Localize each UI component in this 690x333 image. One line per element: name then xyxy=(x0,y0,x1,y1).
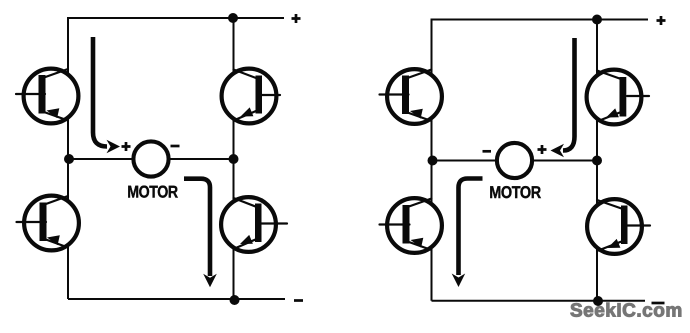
wire: right top rail xyxy=(432,19,649,21)
wire: right circuit left rail xyxy=(431,19,433,301)
current flow arrow into motor (right circuit) xyxy=(551,38,575,157)
node dot: left circuit mid-left junction xyxy=(64,154,74,164)
minus terminal label (left circuit supply) xyxy=(294,299,303,302)
node dot: right circuit top rail junction xyxy=(592,15,602,25)
motor M1 (left circuit) xyxy=(133,141,168,176)
transistor Q6 (top-right, right circuit) xyxy=(587,70,649,125)
motor M2 (right circuit) xyxy=(497,143,532,178)
wire: right bottom rail xyxy=(432,300,646,302)
node dot: right circuit bottom junction xyxy=(593,296,603,306)
node dot: right circuit mid-left junction xyxy=(428,156,438,166)
plus terminal label (left circuit supply) xyxy=(292,14,301,23)
transistor Q7 (bottom-left, right circuit) xyxy=(380,198,442,253)
transistor Q2 (top-right, left circuit) xyxy=(222,69,280,124)
wire: left mid wire to motor xyxy=(68,158,234,160)
node dot: right circuit mid-right junction xyxy=(592,156,602,166)
transistor Q1 (top-left, left circuit) xyxy=(16,69,78,124)
transistor Q3 (bottom-left, left circuit) xyxy=(17,196,79,251)
node dot: left circuit bottom junction xyxy=(230,295,240,305)
node dot: left circuit top rail junction xyxy=(228,13,238,23)
current flow arrow out of motor (right circuit) xyxy=(452,179,483,288)
wire: left circuit right rail xyxy=(233,18,235,300)
plus mark at motor M2 right terminal xyxy=(538,145,547,154)
wire: right circuit right rail xyxy=(596,20,598,302)
current flow arrow into motor (left circuit) xyxy=(93,37,120,153)
transistor Q8 (bottom-right, right circuit) xyxy=(587,199,650,254)
svg-text:MOTOR: MOTOR xyxy=(127,183,178,202)
plus terminal label (right circuit supply) xyxy=(657,16,666,25)
wire: left bottom rail xyxy=(68,298,285,300)
wire: left top rail xyxy=(68,17,284,19)
plus mark at motor M1 left terminal xyxy=(122,142,131,151)
wire: right mid wire to motor xyxy=(432,160,598,162)
svg-text:SeekIC.com: SeekIC.com xyxy=(570,301,683,322)
minus mark at motor M1 right terminal xyxy=(171,145,180,148)
minus terminal label (right circuit supply) xyxy=(652,302,665,305)
transistor Q4 (bottom-right, left circuit) xyxy=(221,197,287,252)
minus mark at motor M2 left terminal xyxy=(483,150,492,153)
current flow arrow out of motor (left circuit) xyxy=(184,179,217,288)
wire: left circuit left rail xyxy=(67,17,69,299)
node dot: left circuit mid-right junction xyxy=(229,154,239,164)
transistor Q5 (top-left, right circuit) xyxy=(380,69,442,124)
svg-text:MOTOR: MOTOR xyxy=(489,183,541,202)
